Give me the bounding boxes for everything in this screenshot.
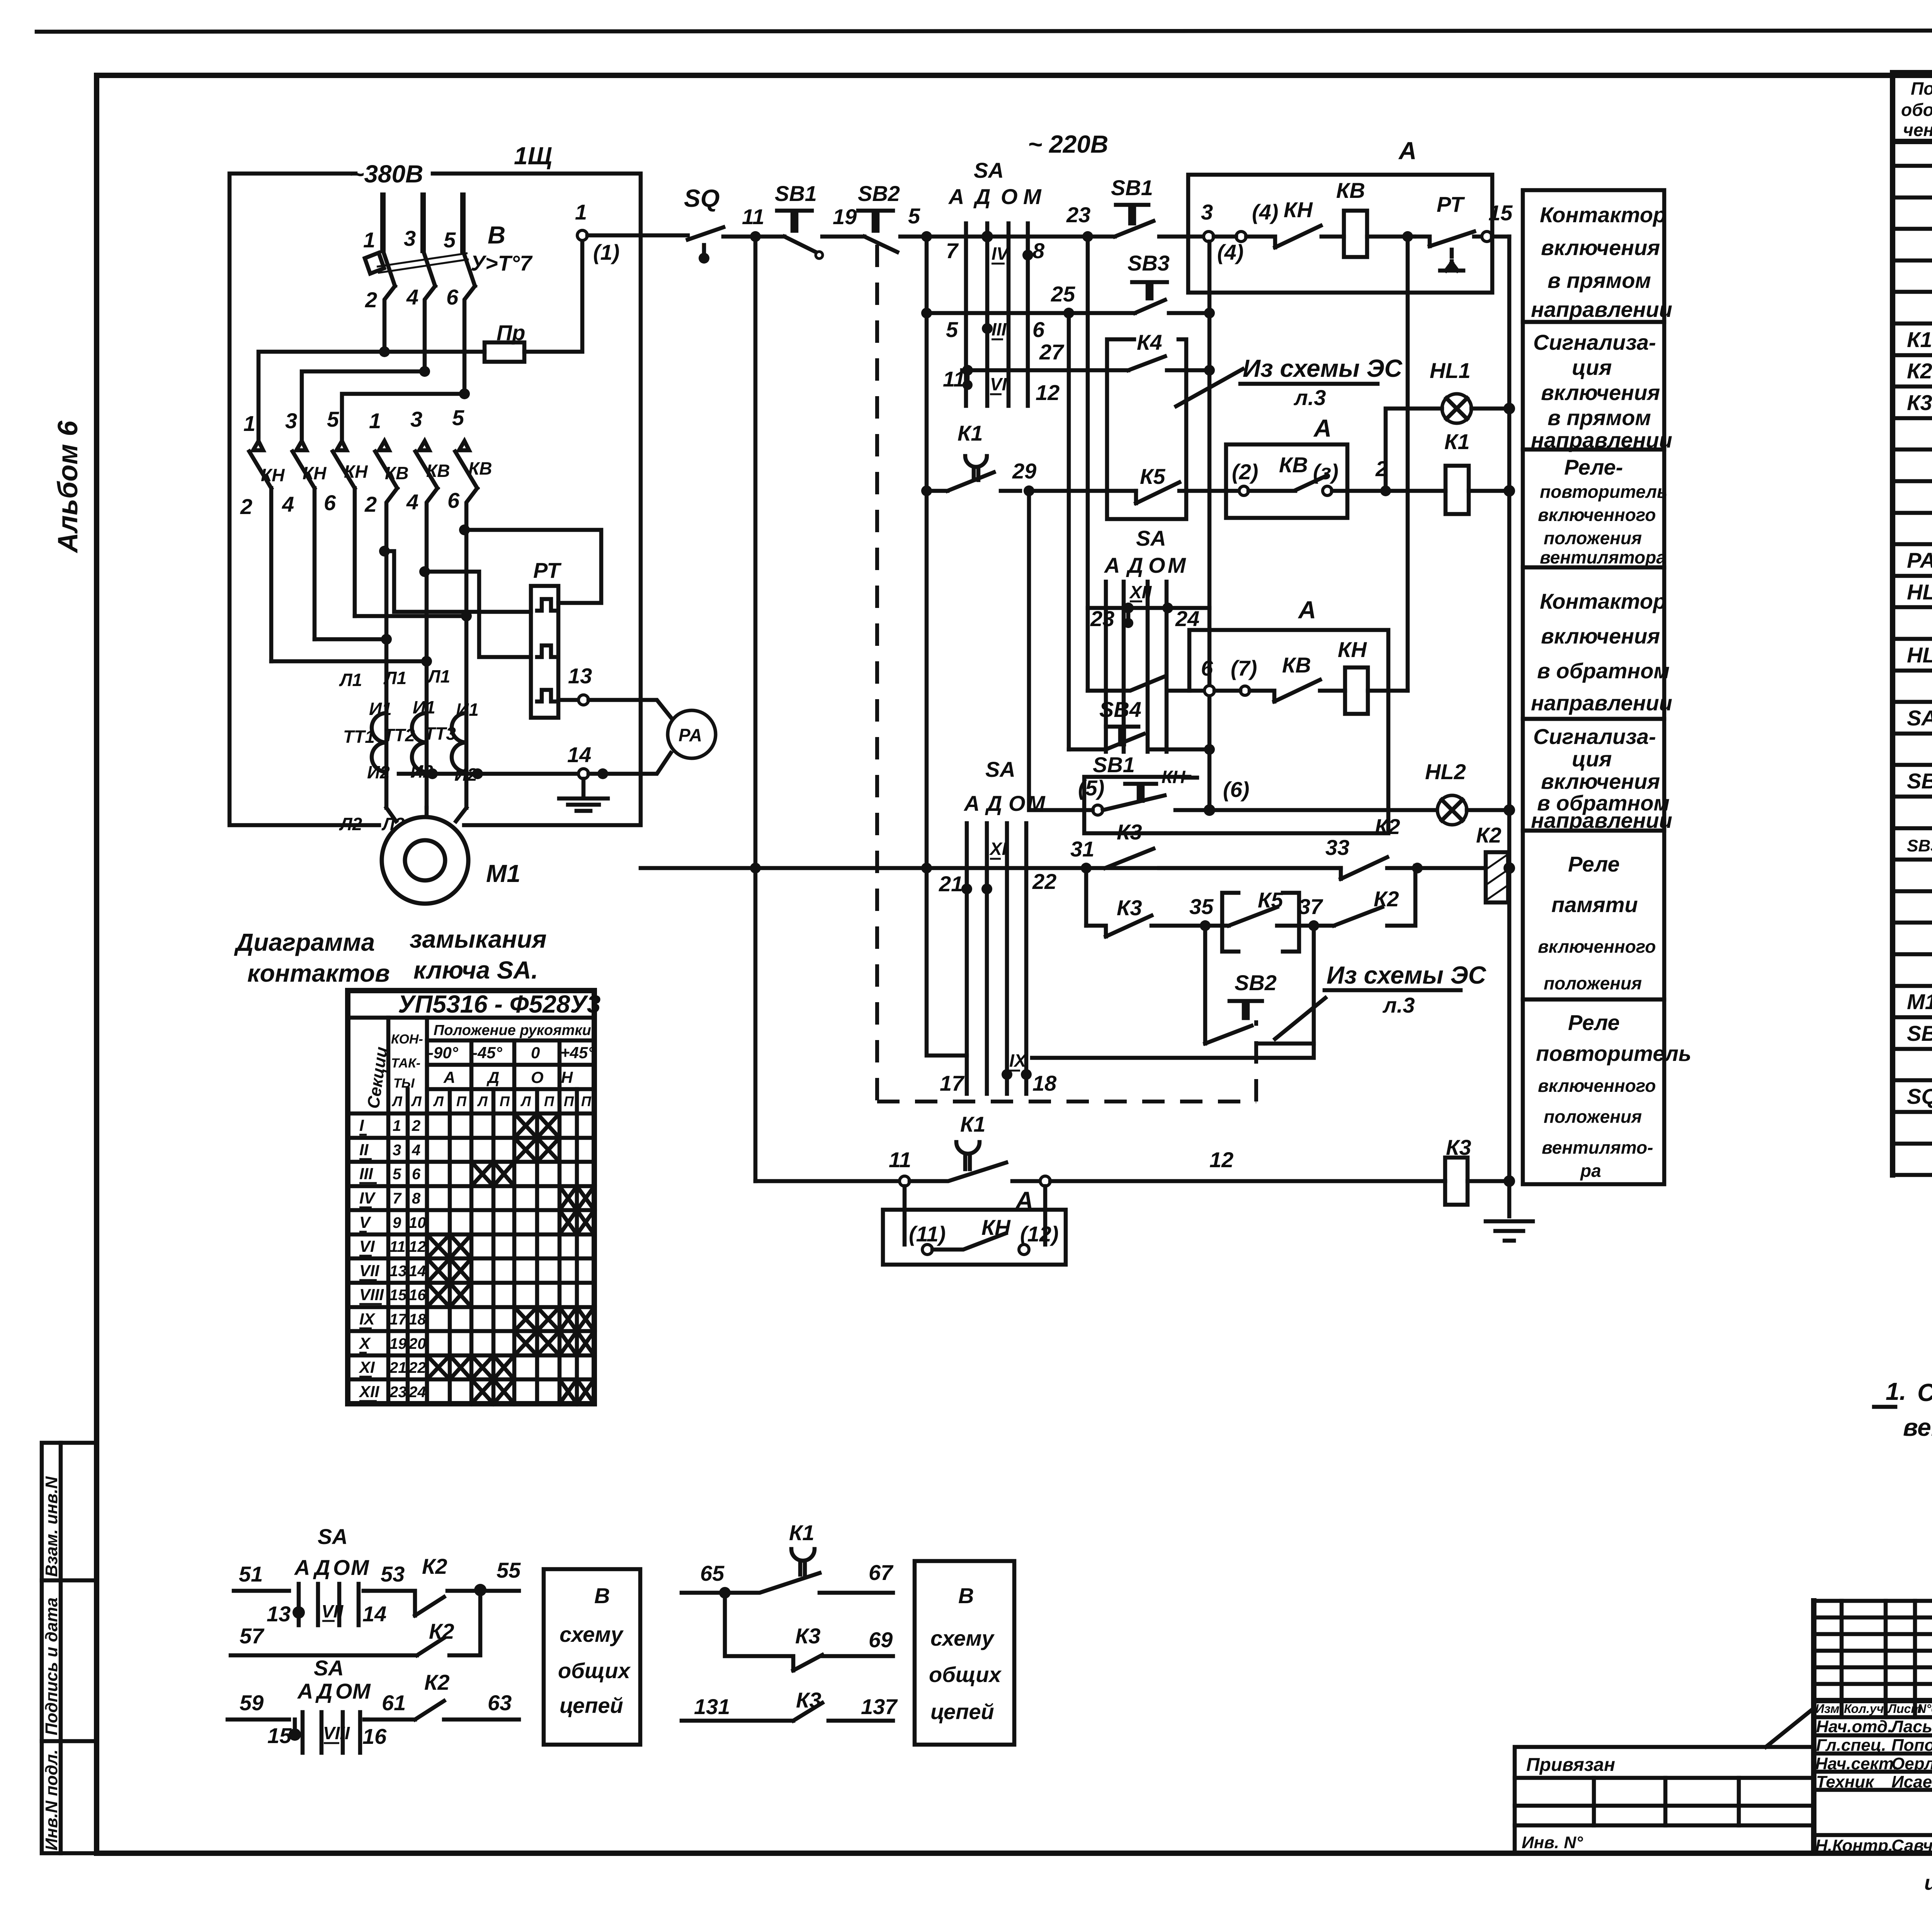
svg-text:5: 5 [393,1166,401,1183]
svg-text:(5): (5) [1078,776,1104,800]
bottom annotations [1924,1868,1932,1909]
svg-text:SA: SA [985,757,1015,781]
svg-text:Л1: Л1 [339,670,362,690]
svg-text:19: 19 [389,1335,407,1352]
svg-text:Взам. инв.N: Взам. инв.N [42,1476,61,1577]
svg-text:повторитель: повторитель [1536,1041,1691,1066]
SA diagram table rows with X marks [359,1113,594,1404]
svg-text:О: О [531,1068,544,1086]
svg-text:(12): (12) [1020,1222,1059,1246]
svg-text:(2): (2) [1232,460,1258,484]
svg-text:ция: ция [1572,355,1612,380]
terminal 13 and wire to ammeter [558,664,671,717]
svg-text:обозна-: обозна- [1901,100,1932,120]
svg-text:в прямом: в прямом [1548,405,1651,430]
svg-text:М: М [351,1555,369,1580]
SA group3 bars [967,823,1026,1094]
crossover lower: KH5 to L3 run [355,611,472,621]
svg-text:Реле: Реле [1568,852,1620,876]
svg-text:включения: включения [1541,235,1660,260]
svg-text:Попов: Попов [1891,1736,1932,1755]
contactor coil KB (forward) [1336,178,1414,257]
svg-text:IX: IX [359,1310,376,1328]
svg-text:14: 14 [362,1602,386,1626]
svg-text:XII: XII [359,1382,380,1401]
phase line L1 incoming [380,195,386,250]
svg-text:К2: К2 [429,1619,454,1643]
sidebar stamp boxes left [42,1443,97,1853]
svg-text:SB1: SB1 [775,181,817,206]
svg-text:Л1: Л1 [383,668,406,688]
svg-text:Нач.сект.: Нач.сект. [1815,1754,1898,1773]
svg-text:Контактор: Контактор [1540,203,1666,227]
svg-text:Л: Л [477,1093,488,1109]
svg-text:л.3: л.3 [1382,993,1415,1017]
svg-text:15: 15 [389,1287,407,1304]
svg-text:л.3: л.3 [1293,385,1326,410]
svg-text:II: II [359,1141,369,1159]
contactor pole labels row [240,405,492,519]
relay contact K3 (break) second row [1086,896,1200,936]
svg-text:положения: положения [1544,973,1642,993]
contactor KH pole 1 [249,441,271,661]
svg-text:6: 6 [446,285,459,309]
svg-text:VII: VII [359,1262,380,1280]
svg-text:Д: Д [973,184,990,209]
svg-text:3: 3 [393,1142,401,1159]
svg-text:61: 61 [382,1691,406,1715]
svg-text:вентиляторов N2,3 схема ана: вентиляторов N2,3 схема аналогична. [1903,1413,1932,1441]
relay coil K3 [1445,1135,1515,1205]
svg-text:включения: включения [1541,624,1660,648]
svg-text:13: 13 [389,1263,407,1280]
svg-text:К2: К2 [424,1670,450,1694]
relay coil K1 [1386,429,1515,514]
svg-text:31: 31 [1070,837,1094,861]
svg-text:3: 3 [1201,200,1213,224]
svg-text:7: 7 [393,1190,402,1207]
svg-text:К1: К1 [1907,327,1932,352]
wire 11-12-27 row3 with K4 [943,340,1128,405]
signature rows [1814,1702,1932,1855]
svg-text:В: В [958,1583,974,1608]
relay coil K2 (hatched) [1417,823,1515,902]
svg-text:12: 12 [1036,380,1060,405]
SA wire 17-18 bottom [927,868,1057,1095]
svg-text:2: 2 [240,494,252,519]
contactor aux KH break contact on bus [1246,197,1344,247]
svg-text:цепей: цепей [930,1699,994,1724]
svg-text:Из схемы ЭС: Из схемы ЭС [1243,354,1403,382]
svg-text:4: 4 [406,285,418,309]
main bus through SA to node 23 [927,235,1088,239]
svg-text:КН: КН [1284,197,1313,222]
SA aux contact section VIII wire 59-61 [228,1656,406,1753]
svg-text:КОН-: КОН- [391,1032,423,1047]
contact K5 (in box, from ЭС) [1136,464,1179,503]
svg-text:VI: VI [990,374,1007,394]
terminal 6 [1201,656,1214,696]
svg-text:65: 65 [700,1561,724,1585]
node on L1 at fuse line [379,346,390,357]
svg-text:25: 25 [1051,282,1075,306]
svg-text:положения: положения [1544,1107,1642,1127]
svg-text:59: 59 [240,1691,264,1715]
svg-text:SA: SA [974,158,1004,182]
svg-text:Инв.N подл.: Инв.N подл. [42,1749,61,1851]
SA diagram table header texts [364,990,600,1110]
svg-text:Д: Д [315,1679,332,1703]
svg-text:SB1: SB1 [1907,1021,1932,1045]
wire SQ to SB1 with node 11 [723,204,784,237]
box to common circuits #1 [544,1569,640,1745]
svg-text:ТТ2: ТТ2 [383,725,415,745]
phase line L2 incoming [420,195,426,250]
signal lamp HL2 [1425,759,1515,825]
svg-text:Нач.отд.: Нач.отд. [1816,1717,1892,1736]
button SB1 (stop, break contact) [775,181,864,259]
note: from scheme ЭС sheet3 (lower) [1275,961,1486,1039]
svg-text:К3: К3 [1117,896,1142,920]
svg-text:SQ: SQ [1907,1084,1932,1108]
svg-text:А: А [443,1068,455,1086]
svg-text:2: 2 [412,1117,420,1134]
svg-text:6: 6 [1201,656,1213,680]
svg-text:4: 4 [282,492,294,516]
svg-text:К5: К5 [1140,464,1165,489]
thermal relay PT break contact with reset [1414,192,1513,271]
svg-text:18: 18 [1032,1071,1057,1095]
svg-text:РТ: РТ [1437,192,1465,216]
svg-text:IX: IX [1009,1050,1027,1071]
branch 31 down to second row [1084,868,1088,926]
svg-text:К3: К3 [796,1688,821,1712]
rail from node 23 down [1086,237,1090,691]
CT TT1 [343,713,386,772]
svg-text:К2: К2 [1476,823,1502,847]
svg-text:0: 0 [531,1044,540,1062]
svg-text:ра: ра [1580,1161,1601,1181]
svg-text:К3: К3 [1117,820,1142,844]
selector switch SA group1 labels [948,130,1108,209]
motor M1 [382,808,520,904]
rail from node 11 down [753,237,758,1181]
relay contact K3 make (131-137) [682,1688,898,1721]
svg-text:О: О [1148,553,1165,577]
function box: Реле-повторитель включенного положения вентилятора [1523,449,1667,567]
svg-text:63: 63 [488,1691,512,1715]
svg-text:5: 5 [452,405,464,430]
CT labels Л1/И1 [339,666,479,720]
svg-text:П: П [581,1093,592,1109]
svg-text:Привязан: Привязан [1526,1755,1615,1775]
function box: Сигнализация включения в прямом направлении [1523,322,1672,452]
svg-text:HL1: HL1 [1907,580,1932,604]
svg-text:V: V [359,1213,371,1231]
svg-text:ТЫ: ТЫ [393,1076,415,1091]
svg-text:ТТ3: ТТ3 [424,724,456,744]
svg-text:9: 9 [393,1214,401,1231]
signal lamp HL1 [1386,358,1509,491]
node 25 [1051,282,1075,318]
svg-text:(1): (1) [593,240,619,264]
svg-text:Альбом 6: Альбом 6 [53,421,83,553]
svg-text:Гл.спец.: Гл.спец. [1816,1736,1886,1755]
svg-text:Л2: Л2 [339,814,362,834]
dashed panel boundary bottom [877,1100,1256,1103]
svg-text:О: О [335,1679,352,1703]
note: from scheme ЭС sheet3 (top) [1176,354,1403,410]
svg-text:(4): (4) [1217,240,1243,264]
svg-text:HL2: HL2 [1907,643,1932,667]
svg-text:Савченко: Савченко [1891,1836,1932,1855]
svg-text:общих: общих [558,1658,631,1683]
svg-text:А: А [1104,553,1120,577]
svg-text:Д: Д [985,791,1002,815]
note 1: schema developed for fan N1 [1874,1377,1932,1441]
svg-text:(6): (6) [1223,777,1249,802]
svg-text:ц00130-06: ц00130-06 [1924,1871,1932,1895]
svg-text:14: 14 [567,742,591,767]
cabinet box 1Щ [230,142,641,825]
contactor KB pole 5 [455,441,477,616]
button SB1 start-reverse (make) [1088,676,1204,801]
terminal 11 [755,1147,911,1186]
svg-text:8: 8 [1032,238,1045,263]
node 37 [1298,894,1323,931]
svg-text:13: 13 [267,1602,291,1626]
svg-text:35: 35 [1189,894,1214,919]
svg-text:57: 57 [240,1624,265,1648]
svg-text:SA: SA [1907,706,1932,730]
contactor coil KH (reverse) [1338,231,1413,714]
svg-text:SB3,SB4: SB3,SB4 [1907,836,1932,855]
svg-text:включенного: включенного [1538,936,1656,957]
parts table row texts [1907,172,1932,1140]
svg-text:А: А [963,791,980,815]
svg-text:24: 24 [408,1384,426,1401]
right return bus [1507,237,1512,1216]
svg-text:5: 5 [908,204,920,228]
svg-text:Ласыкин: Ласыкин [1890,1717,1932,1736]
PT heater tap from L2 [419,566,531,657]
contactor KH aux contact (5)-(6) [1078,767,1249,815]
svg-text:1: 1 [575,200,587,224]
svg-text:137: 137 [861,1694,898,1719]
phase drops after breaker [384,286,475,394]
svg-text:ТАК-: ТАК- [391,1056,420,1071]
svg-text:11: 11 [889,1147,911,1172]
relay contact K2 make on 61-63 [364,1670,519,1720]
svg-text:(7): (7) [1231,656,1257,680]
contactor KH pole 3 [293,441,315,639]
terminal (4) on bus [1214,200,1278,264]
svg-text:Диаграмма: Диаграмма [234,928,375,956]
function box: Реле памяти включенного положения [1523,831,1664,999]
svg-text:Лист: Лист [1887,1702,1922,1716]
wire 5-6 row2 [921,308,1215,342]
svg-text:И2: И2 [367,762,390,782]
svg-text:Л: Л [520,1093,531,1109]
svg-text:схему: схему [930,1626,995,1650]
svg-text:П: П [544,1093,554,1109]
svg-text:Д: Д [1126,553,1143,577]
svg-text:29: 29 [1012,459,1036,483]
svg-text:1: 1 [393,1117,401,1134]
sheet top edge line [37,30,1932,32]
secondary bus И2 with terminal 14 [399,742,671,779]
ground under terminal 14 [559,779,608,811]
svg-text:В: В [488,221,505,249]
function box: Сигнализация включения в обратном направлении [1523,719,1672,833]
box to common circuits #2 [915,1561,1014,1745]
contactor KH pole 5 [333,441,355,616]
svg-text:HL2: HL2 [1425,759,1466,784]
svg-text:18: 18 [409,1311,426,1328]
function box: Контактор включения в обратном направлении [1523,567,1672,719]
svg-text:SA: SA [318,1524,348,1549]
terminal (7) [1214,656,1257,695]
svg-text:I: I [359,1116,364,1134]
svg-text:2: 2 [365,288,377,312]
crossover: L2 tap [302,366,430,441]
svg-text:М: М [352,1679,371,1703]
svg-text:6: 6 [412,1166,421,1183]
svg-text:К2: К2 [1375,814,1400,839]
wire K1 rail from node5 down [925,237,929,868]
svg-text:П: П [500,1093,510,1109]
svg-text:К1: К1 [957,421,983,445]
L1 feed down to KH pole1 [259,352,384,441]
relay contact K2 break on 53-55 [364,1554,521,1616]
svg-text:1.: 1. [1886,1377,1906,1405]
ammeter PA [668,710,716,758]
box K4/K5 external contacts [1107,330,1186,519]
SA group1 bars [966,223,1028,406]
dashed panel boundary vertical [875,245,879,1102]
svg-text:VI: VI [359,1237,375,1255]
svg-text:ТТ1: ТТ1 [343,727,375,747]
svg-text:А: А [294,1555,310,1580]
svg-text:К1: К1 [960,1112,986,1136]
svg-text:М1: М1 [486,860,520,887]
node 35 [1189,894,1214,931]
svg-text:XI: XI [989,839,1007,859]
svg-text:Д: Д [313,1555,330,1580]
svg-text:IV: IV [359,1189,376,1207]
svg-text:КВ: КВ [1336,178,1365,203]
svg-text:6: 6 [324,490,336,515]
svg-text:контактов: контактов [247,959,390,987]
svg-text:направлении: направлении [1531,297,1672,322]
svg-text:7: 7 [946,238,959,263]
svg-text:П: П [564,1093,574,1109]
svg-text:+45°: +45° [560,1044,595,1062]
svg-text:1: 1 [363,228,375,252]
svg-text:SB3: SB3 [1128,251,1170,275]
svg-text:включения: включения [1541,380,1660,405]
svg-text:1: 1 [243,411,255,436]
svg-text:памяти: памяти [1551,892,1638,917]
svg-text:Изм.: Изм. [1815,1702,1843,1716]
svg-text:VIII: VIII [323,1723,350,1743]
limit switch SQ [684,184,723,264]
crossover lower: KH3 to L1 run [315,634,392,645]
phase line L3 incoming [460,195,466,250]
svg-text:19: 19 [833,204,857,229]
svg-text:положения: положения [1544,528,1642,548]
box A (reverse contactor group) [1084,596,1388,833]
relay contact K2 (break) on 33 line [1341,814,1417,879]
svg-text:Сигнализа-: Сигнализа- [1533,330,1656,354]
svg-text:А: А [1313,414,1332,442]
svg-text:в обратном: в обратном [1537,659,1670,683]
wire from cabinet to SA section XI (21/22 row) [641,863,761,873]
svg-text:Подпись и дата: Подпись и дата [42,1597,61,1735]
relay contact K1 (make, on wire 29) [921,421,1020,496]
svg-text:3: 3 [404,226,416,250]
svg-text:3: 3 [285,409,297,433]
SA group3 labels [963,757,1046,815]
svg-text:11: 11 [742,204,764,229]
contact K4 (from scheme ЭС) [1128,356,1215,376]
svg-text:включенного: включенного [1538,1076,1656,1096]
svg-text:XII: XII [1129,582,1152,602]
svg-text:11: 11 [389,1238,406,1255]
svg-text:51: 51 [239,1562,263,1586]
svg-text:Поз.: Поз. [1911,78,1932,99]
PT heater tap from L3 [459,524,601,603]
CT TT3 [424,713,466,772]
svg-text:включенного: включенного [1538,505,1656,525]
svg-text:Исаева: Исаева [1891,1772,1932,1791]
contactor aux KB break contact [1250,653,1345,701]
svg-text:17: 17 [389,1311,407,1328]
relay contact K3 (make) on 31-33 [1105,820,1349,868]
svg-text:SB2: SB2 [858,181,900,206]
svg-text:схему: схему [560,1622,624,1646]
svg-text:направлении: направлении [1531,691,1672,715]
svg-text:вентилято-: вентилято- [1542,1137,1653,1158]
svg-text:М: М [1027,791,1046,815]
svg-text:РА: РА [679,725,702,745]
svg-text:5: 5 [327,407,339,431]
svg-text:КВ: КВ [1279,453,1308,477]
svg-text:Н.Контр.: Н.Контр. [1815,1836,1893,1855]
svg-text:К1: К1 [789,1520,815,1545]
album label: Альбом 6 [53,421,83,553]
svg-text:Реле-: Реле- [1564,455,1623,479]
svg-text:SA: SA [314,1656,344,1680]
svg-text:А: А [1398,137,1417,165]
svg-text:33: 33 [1325,835,1349,860]
svg-text:4: 4 [406,490,418,514]
svg-text:10: 10 [409,1214,426,1231]
svg-text:16: 16 [409,1287,426,1304]
svg-text:К4: К4 [1137,330,1162,354]
svg-text:1Щ: 1Щ [514,142,552,170]
svg-text:П: П [456,1093,467,1109]
svg-text:21: 21 [389,1359,407,1376]
breaker B poles [365,250,475,286]
dashed link SB2 [1254,1020,1258,1102]
svg-text:Оерлевец: Оерлевец [1891,1754,1932,1773]
left attachment box [1515,1708,1814,1853]
svg-text:SB1: SB1 [1093,752,1135,777]
svg-text:3: 3 [410,407,422,431]
svg-text:Кол.уч: Кол.уч [1844,1702,1884,1716]
ground at bus bottom [1486,1221,1533,1241]
